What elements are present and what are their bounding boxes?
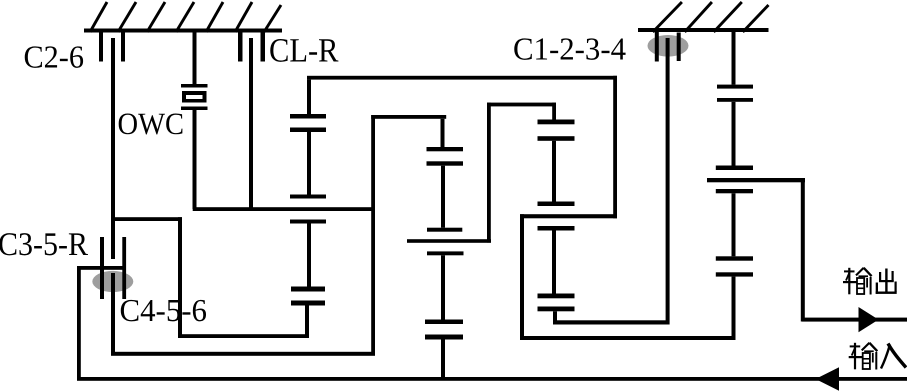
- clutch CL-R center shaft: [249, 38, 253, 209]
- planetary P2 top gear pair: [427, 119, 464, 166]
- svg-text:C4-5-6: C4-5-6: [120, 292, 208, 328]
- clutch C2-6 right plate: [121, 33, 125, 62]
- wire V3 drop from L2: [520, 214, 524, 340]
- carrier line L2 of P3: [520, 214, 617, 218]
- planetary P2 bottom gear pair: [425, 320, 463, 378]
- output line: [802, 318, 907, 322]
- label 输入 (drawn glyph ru): [881, 344, 906, 369]
- clutch C1-2-3-4 right plate: [677, 33, 681, 62]
- wire L9 box bottom: [520, 336, 736, 340]
- wire lower center shaft: [111, 273, 115, 356]
- wire L3 horizontal: [487, 103, 556, 107]
- label 输出 (drawn glyph shu): [843, 268, 872, 295]
- output carrier line L10: [707, 178, 805, 182]
- svg-text:OWC: OWC: [118, 106, 185, 141]
- housing (right) hatched ground: [638, 2, 769, 32]
- wire L1 top horizontal: [307, 76, 617, 80]
- svg-text:C1-2-3-4: C1-2-3-4: [513, 30, 626, 66]
- wire V373 vertical: [371, 115, 375, 356]
- clutch C1-2-3-4 left plate: [655, 32, 659, 62]
- wire V4 drop from L3: [487, 103, 491, 243]
- label 输入 (drawn glyph shu): [849, 343, 878, 370]
- brake C3-5-R gray ellipse: [92, 271, 133, 292]
- planetary P1 upper gear pair: [290, 80, 326, 132]
- clutch C1-2-3-4 center shaft: [666, 38, 670, 325]
- svg-text:C3-5-R: C3-5-R: [0, 227, 88, 263]
- wire left vertical to input: [77, 266, 81, 381]
- carrier line L4 of P2: [407, 239, 491, 243]
- output coupler bottom bar: [716, 189, 753, 193]
- input line: [77, 377, 907, 381]
- wire stub to left plate: [77, 266, 126, 270]
- label 输出 (drawn glyph chu): [876, 269, 897, 294]
- wire V2 right drop from L1: [613, 76, 617, 219]
- planetary P2 upper sun bar: [427, 166, 462, 232]
- right shaft lower segment: [732, 193, 736, 256]
- planetary P2 lower bar: [427, 251, 464, 319]
- output drop wire V6: [801, 178, 805, 322]
- wire L8 horizontal: [553, 320, 670, 324]
- brake C3-5-R right plate: [122, 237, 126, 299]
- right shaft middle segment: [732, 102, 736, 166]
- planetary P1 bottom gear pair: [291, 287, 325, 339]
- svg-text:CL-R: CL-R: [269, 33, 339, 70]
- brake C1-2-3-4 gray ellipse: [648, 35, 689, 57]
- svg-text:C2-6: C2-6: [24, 38, 85, 74]
- one-way clutch OWC stem from housing: [193, 33, 197, 85]
- wire V12 vertical: [178, 217, 182, 338]
- planetary P1 sun bar: [290, 132, 326, 199]
- input arrowhead: [816, 367, 840, 390]
- wire L12 horizontal: [178, 334, 309, 338]
- right gear pair lower: [716, 256, 753, 276]
- planetary P3 top gear pair: [538, 120, 575, 141]
- wire L5 horizontal: [371, 115, 446, 119]
- housing (left) hatched ground: [84, 2, 282, 33]
- right gear pair upper: [717, 85, 753, 102]
- one-way clutch OWC symbol: [181, 84, 208, 110]
- wire L7 horizontal: [111, 352, 375, 356]
- wire V5 stub to P3: [552, 103, 556, 120]
- clutch CL-R right plate: [261, 33, 266, 62]
- clutch CL-R left plate: [238, 33, 243, 62]
- planetary P1 lower bar: [290, 220, 326, 287]
- planetary P3 upper sun bar: [538, 141, 575, 206]
- output coupler top bar: [716, 166, 753, 171]
- carrier line L6 of P1: [193, 207, 374, 211]
- brake C3-5-R left plate: [100, 237, 104, 299]
- right shaft bottom segment: [732, 277, 736, 340]
- wire OWC to carrier: [193, 110, 197, 209]
- clutch C2-6 left plate: [99, 33, 103, 62]
- clutch C2-6 center shaft: [111, 38, 115, 259]
- wire L11 from C2-6 shaft: [111, 217, 182, 221]
- output arrowhead: [859, 307, 879, 332]
- right shaft upper segment: [732, 32, 736, 85]
- planetary P3 lower bar: [538, 226, 575, 294]
- planetary P3 bottom gear pair: [538, 294, 575, 325]
